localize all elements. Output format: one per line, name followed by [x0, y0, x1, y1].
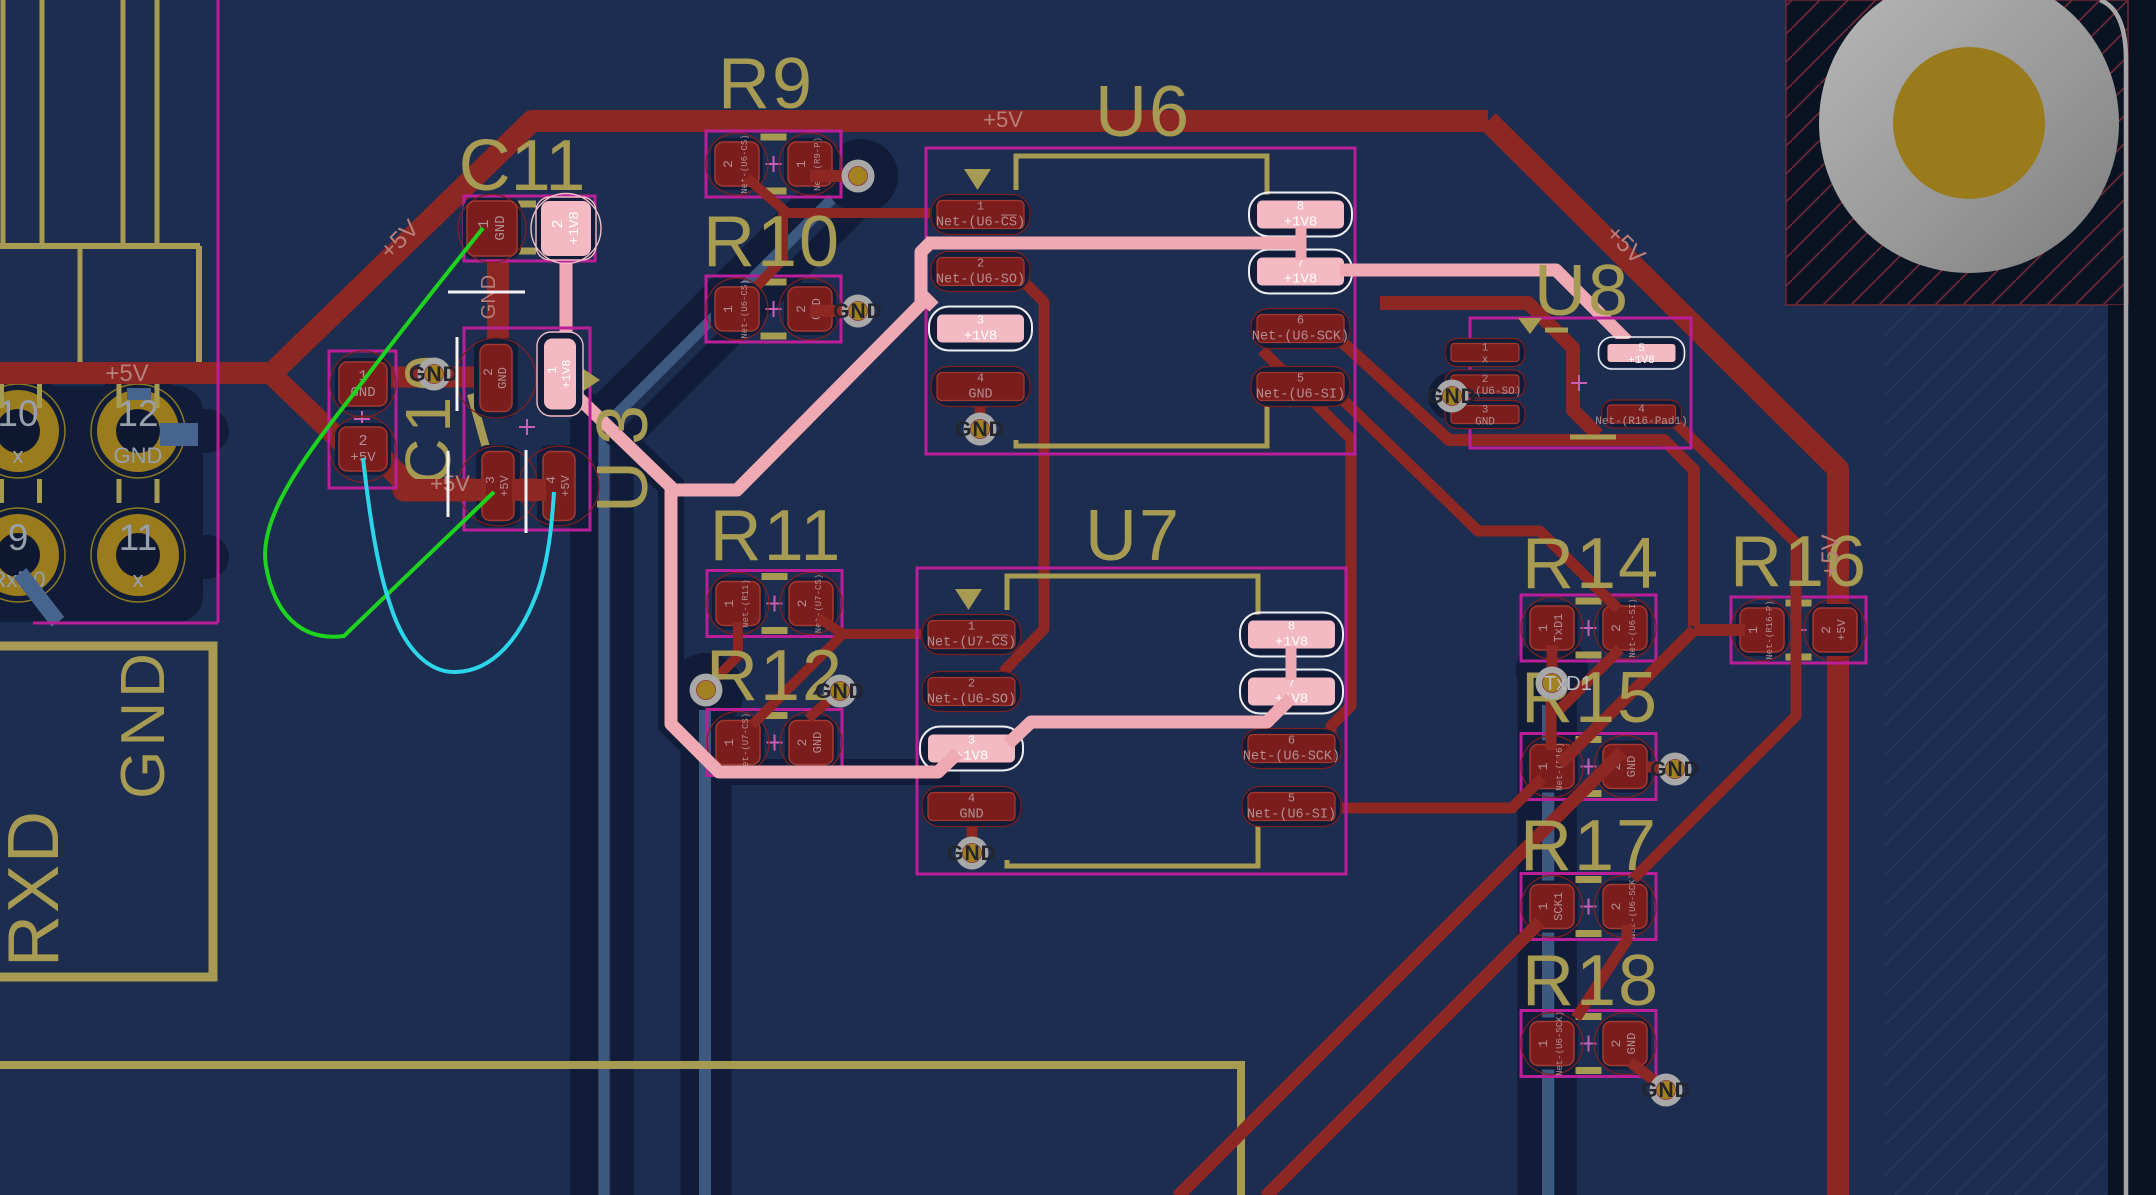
blue stub pad12 right [160, 423, 198, 446]
ic U7 pad 2 Net-(U6-SO) [921, 672, 1022, 712]
svg-text:+5V: +5V [1835, 618, 1849, 640]
svg-text:4: 4 [544, 476, 559, 484]
ic U3 pad4 +5V [537, 445, 581, 527]
svg-text:1: 1 [794, 160, 809, 168]
wire R17 pad2 to R18 pad1 [1576, 925, 1627, 1018]
wire R14 pad2 stub to TxD1 vertical [1556, 649, 1620, 713]
svg-text:3: 3 [968, 734, 975, 748]
svg-text:GND: GND [811, 732, 825, 754]
wire U6 pad6 to U7 pad6 vertical [1262, 350, 1351, 742]
wire R18 pad2 to GND via [1630, 1062, 1664, 1088]
ic U6 pad 6 Net-(U6-SCK) [1250, 309, 1351, 349]
resistor R17 courtyard [1521, 874, 1656, 940]
svg-text:2: 2 [1609, 1040, 1624, 1048]
svg-text:10: 10 [0, 393, 39, 434]
ic U8 silkscreen lines [1545, 328, 1568, 333]
svg-text:2: 2 [1609, 624, 1624, 632]
svg-text:U6: U6 [1095, 72, 1191, 152]
svg-text:x: x [133, 567, 144, 592]
wire R10 pad2 to GND via [810, 305, 858, 317]
svg-text:2: 2 [968, 677, 975, 691]
silkscreen connector outline horizontal [0, 243, 200, 249]
inner trace dark band B left [622, 190, 877, 1195]
wire U7 pad5 to R15 pad1 [1339, 778, 1542, 808]
svg-text:GND: GND [493, 215, 509, 240]
blue stripe under R14 column [1542, 700, 1554, 1195]
svg-text:GND: GND [1625, 756, 1639, 778]
blue stub pad9 diagonal [20, 573, 58, 622]
wire +5V bar repaint over connector [0, 362, 272, 384]
svg-text:TxD1: TxD1 [1544, 673, 1592, 695]
svg-text:3: 3 [977, 314, 984, 328]
resistor R12 pad 1 Net-(U7-CS) [712, 717, 764, 769]
svg-text:x: x [13, 443, 24, 468]
through-hole pad 10 [0, 374, 75, 488]
resistor R18 pad 1 Net-(U6-SCK) [1526, 1018, 1578, 1070]
svg-text:RXD: RXD [0, 809, 74, 967]
svg-text:Net-(R9-P): Net-(R9-P) [813, 137, 823, 191]
svg-text:GND: GND [478, 275, 500, 319]
svg-text:8: 8 [1297, 200, 1304, 214]
svg-text:1: 1 [1536, 902, 1551, 910]
courtyard line vertical x218 [217, 0, 220, 623]
resistor R12 anchor cross [767, 742, 783, 744]
resistor R10 pad 2 GND [784, 283, 836, 335]
silkscreen bottom horizontal line [0, 1065, 1241, 1195]
svg-text:1: 1 [1482, 343, 1489, 355]
wire R11 pad1 to via [706, 622, 738, 688]
svg-text:R10: R10 [703, 202, 841, 282]
silkscreen connector outline verticals to +5V bar [78, 246, 83, 362]
resistor R11 pad 1 Net-(R11) [712, 578, 764, 630]
wire +5V top bar to right diagonal [1488, 121, 1838, 1195]
ratsnest cyan C10 to U3 pad4 [363, 458, 554, 672]
wire +5V bridge across U3 pads 3 4 [404, 479, 486, 501]
ic U8 pin1 triangle [1518, 318, 1542, 334]
resistor R10 silkscreen ticks [761, 279, 787, 286]
resistor R15 pad 2 GND [1599, 741, 1651, 793]
via net R11 [690, 674, 723, 707]
svg-text:2: 2 [550, 219, 567, 228]
ic U6 pad 4 GND [930, 367, 1031, 407]
svg-text:GND: GND [114, 443, 163, 468]
svg-text:2: 2 [795, 739, 810, 747]
wire TxD1 via to R15 pad1 vertical [1546, 672, 1557, 750]
svg-text:9: 9 [8, 517, 29, 558]
resistor R16 courtyard [1731, 597, 1866, 663]
resistor R9 anchor cross [766, 163, 782, 165]
dark band right of blue R14 column [1555, 700, 1577, 1195]
board edge line [2100, 0, 2126, 1195]
wire R17 pad1 long diagonal D2 [1265, 922, 1540, 1195]
via GND U7 [956, 837, 989, 870]
capacitor C10 pad2 +5V [335, 423, 391, 475]
capacitor C11 silkscreen ticks [518, 201, 536, 208]
svg-text:GND: GND [955, 418, 1005, 441]
svg-text:1: 1 [476, 219, 493, 228]
wire R14 pad1 to TxD1 via [1547, 645, 1558, 668]
ic U3 triangle marker [582, 368, 600, 392]
ic U7 pad 8 +1V8 [1241, 615, 1342, 655]
ic U7 pad 3 +1V8 [921, 729, 1022, 769]
svg-text:3: 3 [1482, 405, 1489, 417]
inner trace blue stripe left [604, 172, 859, 1195]
dark blob around R12 via [668, 653, 744, 729]
svg-text:GND: GND [1650, 758, 1700, 781]
courtyard line bottom header box [33, 622, 218, 625]
wire 1V8 U7 pad3 to pad7 [1008, 698, 1291, 744]
svg-text:1: 1 [1536, 762, 1551, 770]
board outside corner dark [2128, 0, 2156, 305]
svg-text:+1V8: +1V8 [1284, 272, 1318, 288]
svg-text:GND: GND [1427, 385, 1477, 408]
resistor R10 courtyard [706, 276, 841, 342]
svg-text:R12: R12 [706, 636, 844, 716]
edit mark vertical 1 [456, 337, 459, 411]
ic U6 courtyard [926, 148, 1355, 454]
ic U6 pin1 triangle [964, 169, 991, 190]
svg-text:R14: R14 [1522, 524, 1660, 604]
ic U3 pad2 GND [474, 338, 518, 418]
svg-text:GND: GND [815, 680, 865, 703]
resistor R14 courtyard [1521, 595, 1656, 661]
svg-text:Net-(U6-SO): Net-(U6-SO) [936, 273, 1025, 288]
svg-text:2: 2 [795, 600, 810, 608]
resistor R12 silkscreen ticks [762, 712, 788, 719]
wire C11 pad1 GND down [487, 232, 509, 383]
ic U8 pad 1 x [1444, 339, 1526, 367]
wire U8 pad3 to GND via [1452, 398, 1476, 415]
wire R11 pad2 to U7 pad1 junction [818, 618, 930, 634]
resistor R14 pad 1 TxD1 [1526, 602, 1578, 654]
svg-text:5: 5 [1297, 372, 1304, 386]
svg-text:Net-(U6-CS): Net-(U6-CS) [740, 279, 750, 338]
ic U8 pad 3 GND [1444, 401, 1526, 429]
dark band under R14 column [1518, 660, 1543, 1195]
ic U6 pad 8 +1V8 [1250, 195, 1351, 235]
svg-text:2: 2 [358, 433, 367, 450]
dark blob around TxD1 via [1516, 634, 1588, 706]
connector J1 dark copper blob [0, 386, 203, 622]
svg-text:+1V8: +1V8 [1628, 355, 1654, 367]
resistor R17 pad 2 Net-(U6-SCK) [1599, 881, 1651, 933]
resistor R17 anchor cross [1581, 906, 1597, 908]
resistor R18 pad 2 GND [1599, 1018, 1651, 1070]
svg-text:5: 5 [1638, 343, 1645, 355]
ic U6 pad 2 Net-(U6-SO) [930, 252, 1031, 292]
svg-text:Net-(U6-SCK): Net-(U6-SCK) [1252, 330, 1349, 345]
via GND R10 [842, 295, 875, 328]
svg-text:4: 4 [1638, 404, 1645, 416]
silkscreen connector outline verticals top-left [1, 0, 6, 247]
svg-text:1: 1 [968, 620, 975, 634]
svg-text:R17: R17 [1520, 806, 1658, 886]
svg-text:GND: GND [409, 363, 459, 386]
dark casing under pink 1V8 trace [560, 380, 960, 772]
inner trace dark band below R12 via [681, 700, 732, 1195]
resistor R11 anchor cross [767, 603, 783, 605]
svg-text:2: 2 [721, 160, 736, 168]
capacitor C11 courtyard [464, 196, 595, 261]
svg-text:GND: GND [1475, 417, 1495, 429]
wire 1V8 U3 pad1 diagonal to junction [562, 382, 958, 772]
through-hole pad 12 [81, 374, 195, 488]
wire U6 pad6 SCK diagonal under U8 [1340, 340, 1694, 626]
svg-text:2: 2 [1482, 374, 1489, 386]
svg-text:Net-(R11): Net-(R11) [741, 579, 751, 628]
ic U7 courtyard [917, 568, 1346, 874]
wire U6 pad2 to U7 pad2 vertical [1005, 276, 1044, 690]
big pad silver annulus [1819, 0, 2119, 273]
svg-text:+1V8: +1V8 [560, 360, 574, 389]
svg-text:11: 11 [119, 517, 157, 558]
svg-text:TxD1: TxD1 [1552, 614, 1566, 643]
big pad gold center [1893, 47, 2045, 199]
svg-text:Net-(U6-SI): Net-(U6-SI) [1256, 388, 1345, 403]
resistor R10 anchor cross [766, 308, 782, 310]
dark blob around U8 gnd via [1428, 372, 1476, 420]
resistor R14 anchor cross [1581, 627, 1597, 629]
resistor R9 silkscreen ticks [761, 134, 787, 141]
svg-text:8: 8 [1288, 620, 1295, 634]
svg-text:1: 1 [977, 200, 984, 214]
wire C10 pad2 +5V to U3 pads 3 4 [378, 455, 560, 490]
resistor R11 courtyard [707, 571, 842, 637]
svg-text:4: 4 [977, 372, 984, 386]
svg-text:R11: R11 [710, 496, 843, 576]
edit mark vertical 2 [447, 451, 450, 517]
svg-text:1: 1 [722, 738, 737, 746]
svg-text:4: 4 [968, 792, 975, 806]
resistor R17 silkscreen ticks [1576, 876, 1602, 883]
wire 1V8 U6 pad7 to U8 pad5 [1340, 270, 1627, 341]
svg-text:+5V: +5V [498, 474, 512, 496]
wire junction diagonal to R12 pad1 [752, 634, 843, 725]
svg-text:2: 2 [481, 368, 496, 376]
svg-text:2: 2 [1609, 903, 1624, 911]
resistor R16 pad 1 Net-(R16-P) [1736, 604, 1788, 656]
capacitor C10 pad1 GND [335, 358, 391, 410]
svg-text:1: 1 [721, 305, 736, 313]
svg-text:2: 2 [977, 257, 984, 271]
svg-text:R15: R15 [1521, 658, 1659, 738]
wire R9 pad1 to via [810, 170, 858, 182]
svg-text:SCK1: SCK1 [1552, 892, 1566, 921]
ic U7 pad 5 Net-(U6-SI) [1241, 787, 1342, 827]
svg-text:GND: GND [959, 808, 983, 823]
through-hole pad 11 [81, 498, 195, 612]
svg-text:+5V: +5V [559, 474, 573, 496]
wire +5V horizontal bar left [0, 362, 276, 384]
via net R9 [842, 160, 875, 193]
svg-text:R18: R18 [1522, 941, 1660, 1021]
ic U3 anchor cross [519, 426, 535, 428]
wire R12 pad2 to GND via [808, 691, 839, 719]
wire fork diagonal to R15 pad1 [1560, 630, 1694, 764]
wire 1V8 vertical junction branch up to U6 pad3 [671, 243, 930, 490]
svg-text:GND: GND [496, 367, 510, 389]
ic U6 pad 3 +1V8 [930, 309, 1031, 349]
ic U3 silkscreen diagonal [471, 394, 490, 462]
wire U8 pad4 to SCK1 vertical and R17 pad2 [1633, 418, 1796, 879]
via GND R15 [1659, 753, 1692, 786]
capacitor C11 pad1 GND [463, 198, 521, 259]
ic U8 pad 5 +1V8 [1601, 339, 1683, 367]
capacitor C10 courtyard [329, 351, 396, 488]
ic U6 pad 7 +1V8 [1250, 252, 1351, 292]
svg-text:+5V: +5V [430, 471, 470, 496]
ic U3 pad3 +5V [476, 445, 520, 527]
wire C10 pad1 to via to U3 pad2 [350, 367, 497, 388]
wire R15 pad2 long diagonal D1 [1177, 752, 1622, 1195]
resistor R15 pad 1 Net-(R16) [1526, 741, 1578, 793]
wire +5V fork down to C10 pad2 [268, 371, 368, 448]
wire R15 pad2 to GND via [1648, 762, 1674, 773]
svg-text:1: 1 [1536, 1039, 1551, 1047]
ic U8 pad 2 Net-(U6-SO) [1444, 370, 1526, 398]
resistor R18 anchor cross [1581, 1043, 1597, 1045]
resistor R18 courtyard [1521, 1011, 1656, 1077]
silkscreen pin ticks between header pads [0, 384, 4, 408]
capacitor C11 pad2 +1V8 [536, 197, 596, 260]
svg-text:Net-(U7-C̅S̅): Net-(U7-C̅S̅) [927, 635, 1016, 650]
wire 1V8 U6 horizontal pad8 row [926, 237, 1301, 250]
resistor R9 pad 2 Net-(U6-CS) [711, 138, 763, 190]
svg-text:GND: GND [833, 300, 883, 323]
svg-text:GND: GND [947, 842, 997, 865]
resistor R12 pad 2 GND [785, 717, 837, 769]
svg-text:Net-(U6-SCK): Net-(U6-SCK) [1243, 750, 1340, 765]
via GND R18 [1650, 1074, 1683, 1107]
through-hole pad 9 [0, 498, 75, 612]
svg-text:Net-(U6-SI): Net-(U6-SI) [1628, 598, 1638, 657]
resistor R15 courtyard [1521, 734, 1656, 800]
wire U6 pad5 SI to R14 pad2 [1340, 397, 1618, 609]
svg-text:+1V8: +1V8 [964, 329, 998, 345]
svg-text:+1V8: +1V8 [567, 211, 583, 245]
ic U3 pad1 +1V8 [537, 332, 583, 416]
svg-text:5: 5 [1288, 792, 1295, 806]
wire +5V fork up-diagonal to top bar [270, 121, 1488, 375]
ic U7 pad 6 Net-(U6-SCK) [1241, 729, 1342, 769]
wire 1V8 U6 pad8 to pad7 connector [1296, 226, 1307, 260]
svg-text:GND: GND [1625, 1033, 1639, 1055]
wire U7 pad4 to GND via stub [967, 815, 978, 851]
svg-text:x: x [1482, 355, 1489, 367]
svg-text:6: 6 [1288, 734, 1295, 748]
svg-text:GND: GND [109, 649, 178, 799]
resistor R12 courtyard [707, 710, 842, 776]
svg-text:1: 1 [545, 366, 560, 374]
svg-text:Net-(U6-SI): Net-(U6-SI) [1247, 808, 1336, 823]
svg-text:6: 6 [1297, 314, 1304, 328]
svg-text:1: 1 [1536, 624, 1551, 632]
ic U8 pad 4 Net-(R16-Pad1) [1601, 400, 1683, 428]
ic U6 pad 1 Net-(U6-C&#773;S&#773;) [930, 195, 1031, 235]
ic U8 anchor cross [1571, 382, 1587, 384]
svg-text:Net-(R16-Pad1): Net-(R16-Pad1) [1595, 416, 1687, 428]
blue stub pad12 top [127, 388, 151, 400]
via GND C10 [418, 358, 451, 391]
wire 1V8 into U6 pad3 [921, 294, 934, 307]
inner trace blue stripe below R12 via [699, 710, 711, 1195]
ratsnest green C11 to U3 pad3 [265, 228, 494, 637]
svg-text:Net-(U6-C̅S̅): Net-(U6-C̅S̅) [936, 215, 1025, 230]
ic U6 pad 5 Net-(U6-SI) [1250, 367, 1351, 407]
resistor R16 anchor cross [1791, 629, 1807, 631]
resistor R15 silkscreen ticks [1576, 736, 1602, 743]
wire U3 pad2 up [486, 345, 507, 380]
ic U7 pad 4 GND [921, 787, 1022, 827]
resistor R18 silkscreen ticks [1576, 1013, 1602, 1020]
wire thick net above U8 [1380, 303, 1598, 435]
ic U6 body outline [1016, 156, 1267, 200]
ic U7 pin1 triangle [955, 589, 982, 610]
via GND U8 [1436, 380, 1469, 413]
via GND U6 [964, 413, 997, 446]
resistor R16 pad 2 +5V [1809, 604, 1861, 656]
resistor R10 pad 1 Net-(U6-CS) [711, 283, 763, 335]
svg-text:+5V: +5V [983, 107, 1023, 132]
wire 1V8 C11 pad2 to U3 pad1 [560, 230, 573, 360]
dark blob around R9 via [824, 139, 898, 213]
svg-text:1: 1 [722, 599, 737, 607]
svg-text:U7: U7 [1085, 496, 1181, 576]
inner trace dark band A diagonal+vertical left [584, 158, 852, 1195]
ic U3 courtyard [464, 328, 590, 530]
wire R9 pad2 to junction to R10 pad1 [747, 178, 786, 286]
svg-text:U3: U3 [583, 389, 663, 513]
resistor R11 silkscreen ticks [762, 573, 788, 580]
edit mark horizontal C11 [448, 291, 525, 294]
svg-text:GND: GND [968, 388, 992, 403]
silkscreen RXD GND box [0, 646, 213, 977]
resistor R14 pad 2 Net-(U6-SI) [1599, 602, 1651, 654]
ic U7 pad 1 Net-(U7-C&#773;S&#773;) [921, 615, 1022, 655]
board edge dark strip right [2108, 305, 2156, 1195]
svg-text:2: 2 [1819, 626, 1834, 634]
via GND R12 [824, 675, 857, 708]
ic U7 pad 7 +1V8 [1241, 672, 1342, 712]
svg-text:2: 2 [794, 305, 809, 313]
board hole region dark square [1786, 0, 2128, 305]
resistor R15 anchor cross [1581, 766, 1597, 768]
resistor R14 silkscreen ticks [1576, 598, 1602, 605]
svg-text:Net-(R16-P): Net-(R16-P) [1765, 600, 1775, 659]
ic U8 courtyard [1470, 318, 1691, 448]
capacitor C10 anchor cross [354, 418, 370, 420]
wire junction to U6 pad1 [783, 208, 950, 218]
svg-text:R16: R16 [1730, 522, 1868, 602]
wire fork to R16 pad1 [1694, 624, 1745, 636]
svg-text:Net-(U6-SO): Net-(U6-SO) [927, 693, 1016, 708]
svg-text:+5V: +5V [105, 360, 148, 387]
wire 1V8 U7 pad8 to pad7 connector [1286, 646, 1297, 680]
svg-text:R9: R9 [718, 44, 814, 124]
svg-text:+5V: +5V [1817, 534, 1844, 577]
wire U6 pad4 to GND via stub [975, 395, 986, 428]
edit mark vertical 3 [525, 450, 528, 533]
resistor R9 pad 1 Net-(R9-P) [784, 138, 836, 190]
resistor R17 pad 1 SCK1 [1526, 881, 1578, 933]
via TxD1 [1536, 667, 1569, 700]
ic U7 body outline [1007, 576, 1258, 620]
svg-text:GND: GND [1641, 1079, 1691, 1102]
resistor R11 pad 2 Net-(U7-CS) [785, 578, 837, 630]
svg-text:1: 1 [1746, 626, 1761, 634]
resistor R9 courtyard [706, 131, 841, 197]
resistor R16 silkscreen ticks [1786, 600, 1812, 607]
